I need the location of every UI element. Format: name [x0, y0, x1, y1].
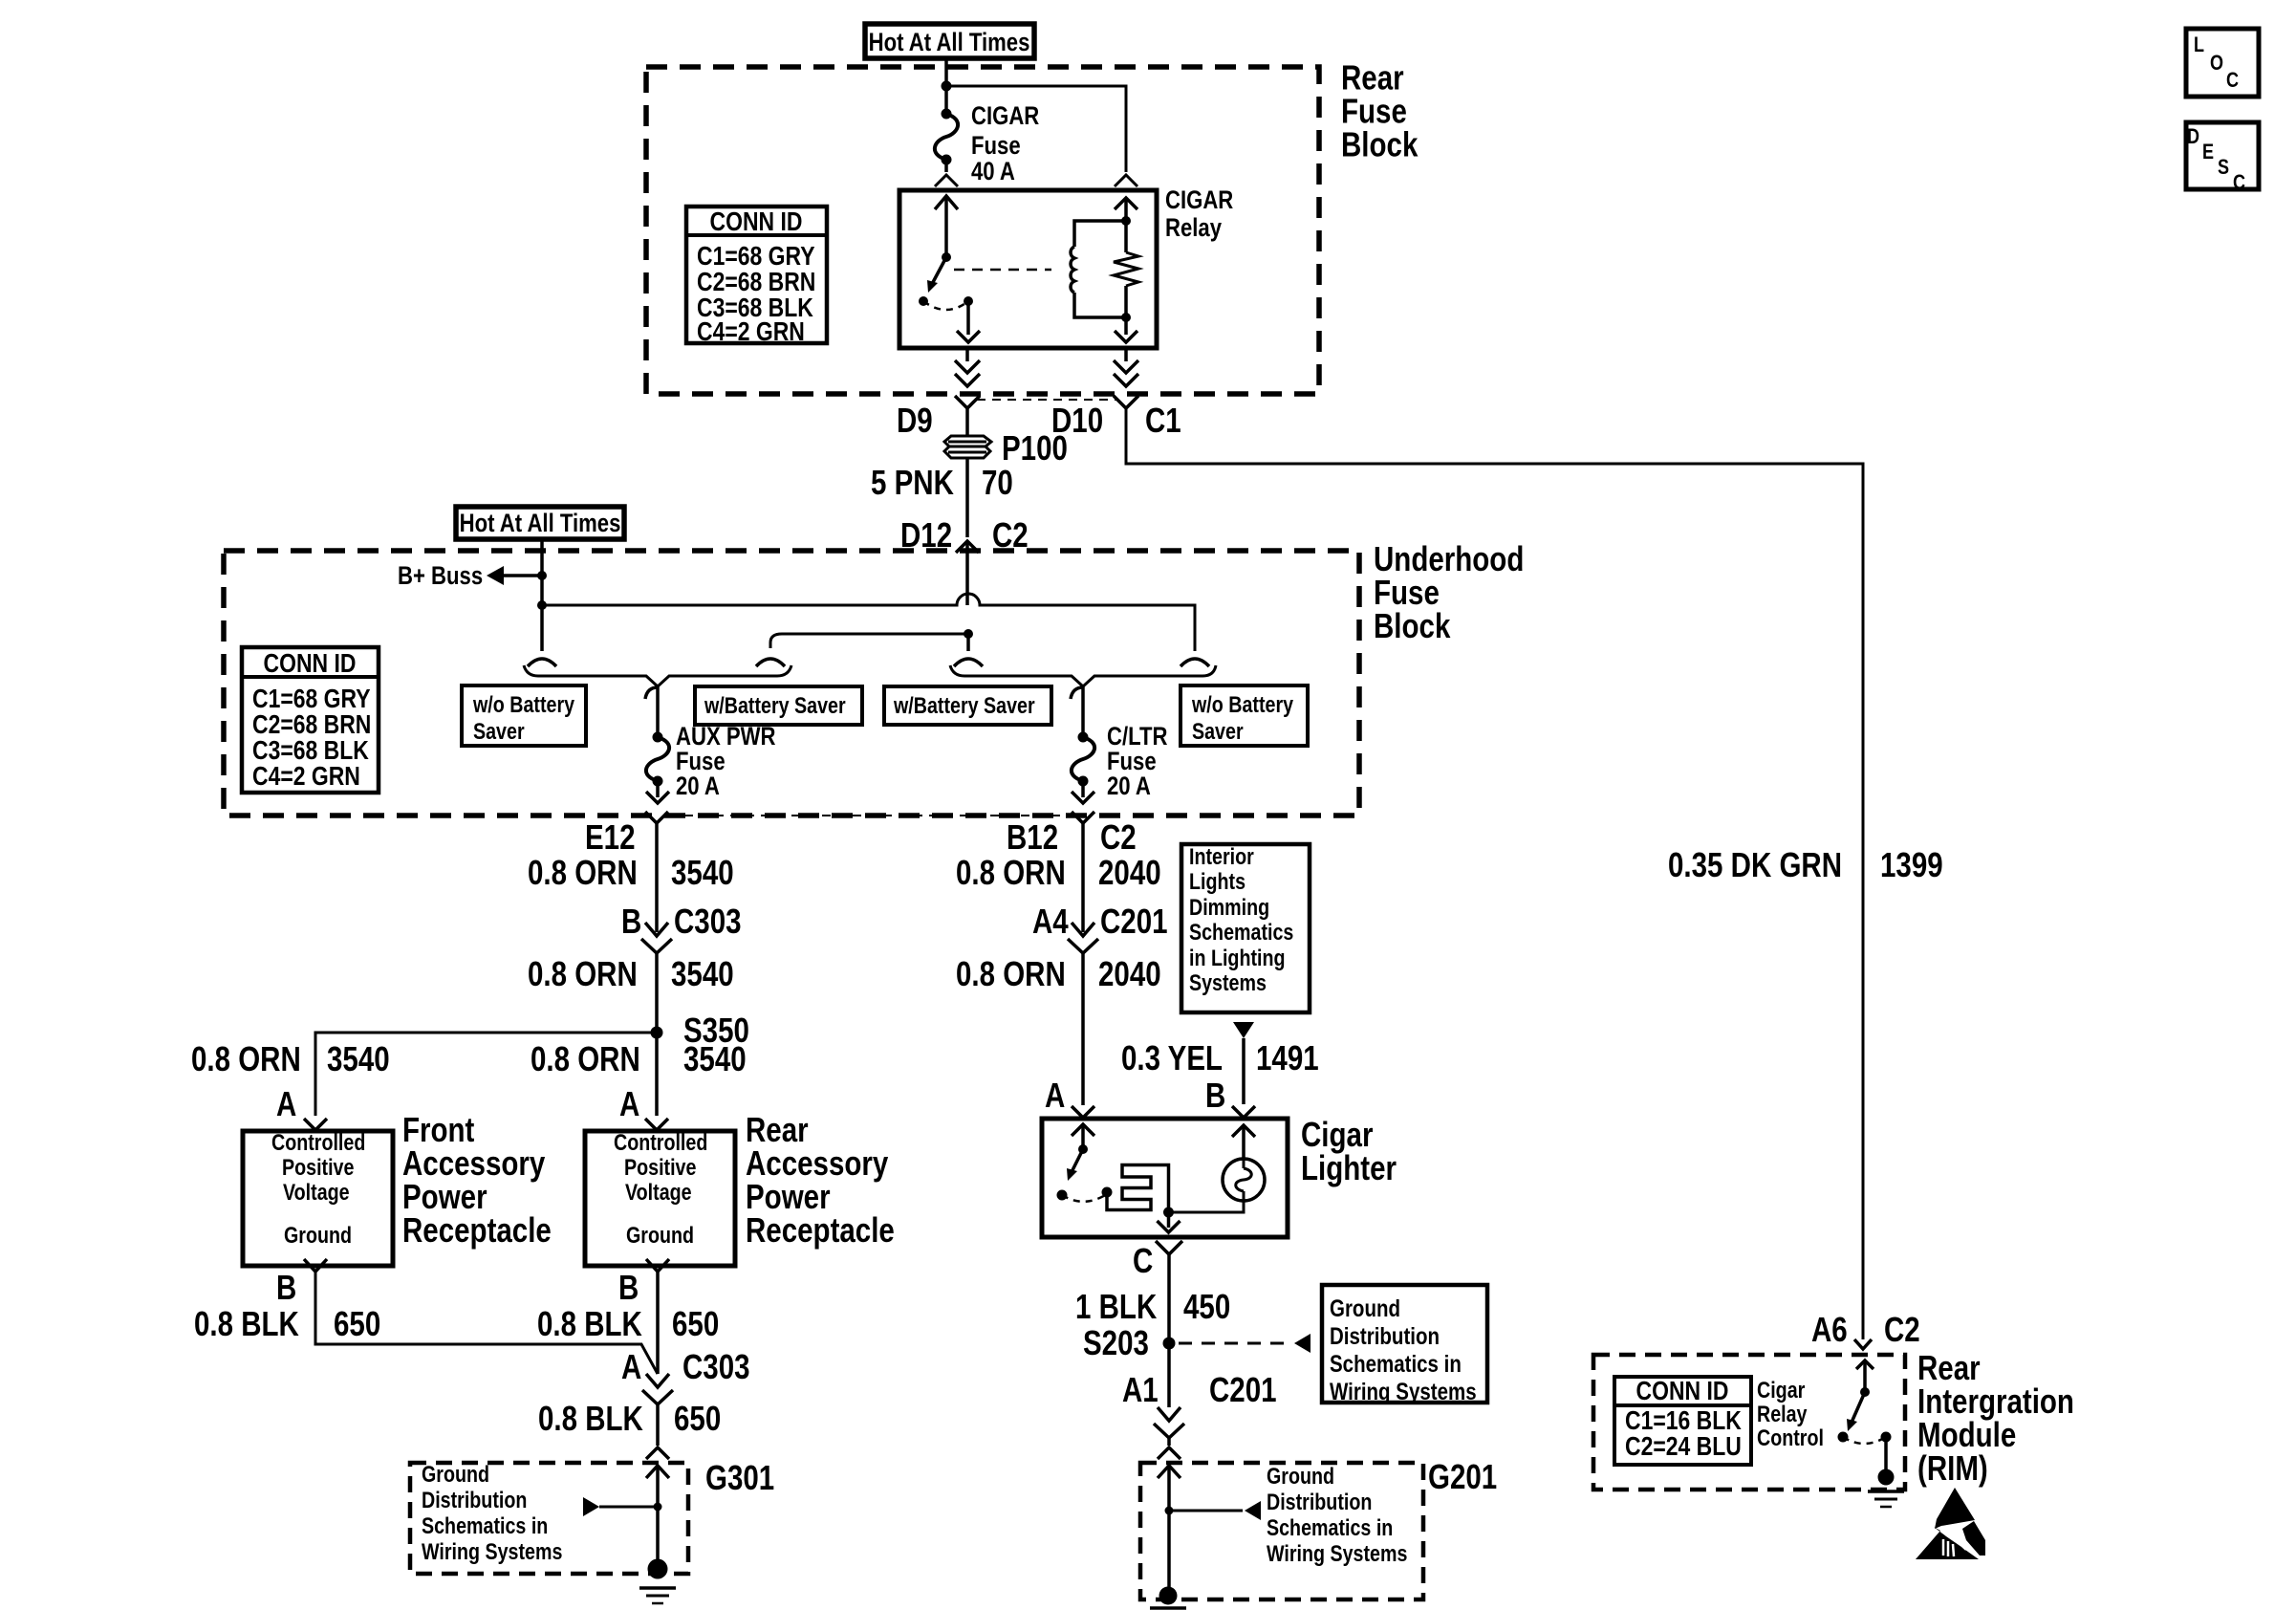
svg-text:1 BLK: 1 BLK — [1075, 1287, 1157, 1325]
RIM internal ground — [1884, 1437, 1888, 1472]
svg-text:0.3 YEL: 0.3 YEL — [1121, 1038, 1223, 1077]
svg-text:Distribution: Distribution — [1330, 1322, 1440, 1349]
relay coil — [1121, 216, 1131, 226]
node: B+ tap — [537, 571, 547, 580]
svg-text:Relay: Relay — [1757, 1401, 1808, 1426]
svg-text:C: C — [2226, 69, 2239, 92]
svg-text:Fuse: Fuse — [971, 132, 1021, 161]
boxed label: w/o Battery Saver (left) — [462, 685, 586, 746]
component: Cigar Lighter — [1042, 1119, 1288, 1237]
ESD sensitive symbol — [1935, 1488, 1975, 1529]
cigar lighter heating element — [1107, 1165, 1169, 1213]
relay contact A — [919, 296, 928, 306]
svg-text:650: 650 — [334, 1304, 380, 1342]
svg-text:450: 450 — [1183, 1287, 1230, 1325]
reference box: Interior Lights Dimming Schematics in Lighting Systems — [1181, 844, 1310, 1012]
connector A4 / C201 — [1072, 923, 1094, 936]
dashed reference line from S203 — [1179, 1342, 1292, 1345]
flag from dimming box — [1233, 1022, 1254, 1038]
svg-text:Dimming: Dimming — [1189, 894, 1269, 920]
svg-text:Ground: Ground — [1330, 1295, 1400, 1321]
svg-text:Saver: Saver — [473, 718, 525, 744]
svg-text:Ground: Ground — [284, 1222, 352, 1248]
relay resistor — [1124, 198, 1128, 252]
svg-text:S203: S203 — [1083, 1323, 1149, 1361]
AUX PWR fuse feed hook — [645, 687, 658, 737]
G301 ground symbol — [648, 1559, 668, 1579]
connector A / C303 (lower) — [646, 1374, 669, 1387]
svg-text:Ground: Ground — [1267, 1463, 1334, 1489]
svg-text:1491: 1491 — [1256, 1038, 1319, 1077]
svg-text:0.8 BLK: 0.8 BLK — [537, 1304, 642, 1342]
node: element output junction — [1163, 1207, 1174, 1218]
connector D9 (female Y) — [955, 396, 980, 408]
svg-text:CONN ID: CONN ID — [1636, 1377, 1729, 1406]
svg-text:C2: C2 — [1100, 817, 1137, 856]
wire from Hot At All Times down to fuse — [944, 58, 948, 114]
connector E12 — [645, 812, 668, 823]
svg-text:D9: D9 — [897, 401, 933, 439]
svg-text:C201: C201 — [1100, 902, 1168, 940]
relay switch common pin arrow — [944, 198, 948, 257]
cigar lighter lamp — [1169, 1201, 1245, 1212]
wire S350 down to rear receptacle — [655, 1033, 659, 1116]
svg-text:Interior: Interior — [1189, 843, 1254, 869]
svg-text:A: A — [276, 1084, 296, 1122]
svg-text:Saver: Saver — [1192, 718, 1244, 744]
label: Hot At All Times (middle) — [456, 507, 624, 539]
svg-text:3540: 3540 — [671, 954, 734, 992]
connector into G301 — [646, 1447, 669, 1459]
wire C1 to RIM (long route) — [1126, 408, 1863, 1339]
ground wire from rear receptacle — [656, 1272, 660, 1374]
svg-text:Lighter: Lighter — [1301, 1148, 1397, 1186]
svg-text:C1: C1 — [1145, 401, 1181, 439]
cigar lighter switch — [1072, 1124, 1094, 1136]
svg-text:A: A — [621, 1347, 641, 1385]
svg-text:G301: G301 — [705, 1458, 774, 1496]
wire P100 down to D12 — [965, 458, 969, 537]
svg-text:CONN ID: CONN ID — [710, 207, 803, 237]
svg-text:Controlled: Controlled — [271, 1129, 365, 1155]
svg-text:P100: P100 — [1002, 428, 1068, 467]
svg-text:Lights: Lights — [1189, 868, 1245, 894]
svg-text:Controlled: Controlled — [614, 1129, 707, 1155]
svg-text:E12: E12 — [585, 817, 636, 856]
connector D12/C2 arrow up — [956, 541, 979, 553]
svg-text:S: S — [2218, 156, 2229, 179]
wire from Hot At All Times into fuse block — [540, 539, 544, 651]
svg-text:A: A — [619, 1084, 639, 1122]
options brace left — [524, 665, 791, 686]
svg-text:Receptacle: Receptacle — [746, 1210, 895, 1249]
svg-text:O: O — [2210, 52, 2223, 75]
svg-text:Systems: Systems — [1189, 969, 1267, 995]
svg-text:w/Battery Saver: w/Battery Saver — [893, 692, 1035, 718]
svg-text:C4=2 GRN: C4=2 GRN — [252, 762, 360, 792]
connector B12/C2 — [1072, 812, 1094, 823]
wire E12 down — [655, 823, 659, 932]
branch wire to front receptacle — [315, 1033, 657, 1116]
svg-text:C303: C303 — [674, 902, 742, 940]
Underhood Fuse Block dashed box — [224, 551, 1359, 816]
cigar lighter output arrow — [1167, 1212, 1171, 1228]
node: junction on main vertical — [964, 629, 973, 639]
svg-text:w/o Battery: w/o Battery — [472, 691, 575, 717]
svg-text:CIGAR: CIGAR — [1165, 186, 1233, 215]
svg-text:Receptacle: Receptacle — [402, 1210, 552, 1249]
svg-text:CIGAR: CIGAR — [971, 102, 1039, 131]
connector A1 / C201 — [1158, 1407, 1180, 1421]
svg-text:B: B — [618, 1268, 639, 1306]
component: Rear Accessory Power Receptacle — [585, 1131, 735, 1266]
svg-text:A1: A1 — [1122, 1370, 1159, 1408]
relay pin D10 double chevrons — [1124, 348, 1128, 361]
svg-text:Voltage: Voltage — [625, 1179, 692, 1205]
DESC button — [2186, 122, 2259, 189]
svg-text:Wiring Systems: Wiring Systems — [422, 1538, 562, 1564]
svg-text:C2: C2 — [1884, 1310, 1920, 1348]
second bus wire — [770, 634, 968, 648]
svg-text:D: D — [2187, 125, 2199, 148]
relay pin D9 double chevrons — [965, 348, 969, 361]
svg-text:G201: G201 — [1428, 1457, 1497, 1495]
svg-text:C: C — [1133, 1241, 1153, 1279]
svg-text:Ground: Ground — [422, 1461, 489, 1487]
svg-text:Ground: Ground — [626, 1222, 694, 1248]
Rear Fuse Block dashed box — [646, 67, 1319, 394]
connector clips — [528, 659, 556, 666]
fine dashed connector line D9-D10 — [977, 399, 1116, 401]
svg-text:0.8 ORN: 0.8 ORN — [531, 1039, 640, 1077]
svg-text:5 PNK: 5 PNK — [871, 463, 954, 501]
svg-text:Wiring Systems: Wiring Systems — [1330, 1378, 1477, 1404]
connector D10/C1 (female Y) — [1114, 396, 1138, 408]
wire B12 down — [1081, 823, 1085, 932]
pass-through grommet P100 — [944, 436, 991, 458]
splice S350 — [651, 1027, 663, 1039]
svg-text:B: B — [1205, 1076, 1225, 1114]
CONN ID box (rear fuse block) — [686, 207, 827, 343]
Rear Integration Module dashed box — [1593, 1355, 1905, 1490]
svg-text:B12: B12 — [1007, 817, 1058, 856]
svg-text:A: A — [1045, 1076, 1065, 1114]
label: Hot At All Times (top) — [865, 24, 1034, 58]
svg-text:20 A: 20 A — [676, 772, 720, 801]
svg-text:20 A: 20 A — [1107, 772, 1151, 801]
svg-text:Positive: Positive — [624, 1154, 696, 1180]
svg-text:3540: 3540 — [683, 1039, 747, 1077]
boxed label: w/Battery Saver (left) — [695, 686, 862, 725]
svg-text:C303: C303 — [682, 1347, 750, 1385]
boxed label: w/o Battery Saver (right) — [1180, 685, 1308, 746]
svg-text:A6: A6 — [1811, 1310, 1848, 1348]
svg-text:C4=2 GRN: C4=2 GRN — [697, 317, 805, 347]
RIM switch — [1856, 1360, 1874, 1369]
svg-text:0.8 BLK: 0.8 BLK — [538, 1399, 643, 1437]
svg-text:3540: 3540 — [327, 1039, 390, 1077]
fuse: AUX PWR 20 A — [653, 732, 663, 743]
svg-text:B: B — [276, 1268, 296, 1306]
connector into relay (right pin) — [1115, 175, 1137, 186]
CONN ID box (RIM) — [1614, 1377, 1751, 1465]
svg-text:E: E — [2202, 141, 2214, 163]
svg-text:2040: 2040 — [1098, 853, 1161, 891]
svg-text:650: 650 — [674, 1399, 721, 1437]
connector into relay (left pin) — [935, 175, 958, 186]
svg-text:Control: Control — [1757, 1425, 1824, 1450]
svg-text:Schematics in: Schematics in — [1330, 1350, 1462, 1377]
svg-text:Hot At All Times: Hot At All Times — [869, 29, 1030, 57]
ground G301 dashed box — [410, 1463, 688, 1574]
svg-text:0.8 ORN: 0.8 ORN — [528, 954, 638, 992]
ground G201 dashed box — [1140, 1463, 1423, 1599]
relay switch blade — [931, 257, 946, 286]
svg-text:w/o Battery: w/o Battery — [1191, 691, 1294, 717]
relay switch dashed throw arc — [923, 301, 968, 310]
node: bus junction — [537, 600, 547, 610]
reference box: Ground Distribution Schematics in Wiring Systems (S203) — [1322, 1285, 1487, 1403]
relay contact B — [964, 296, 973, 306]
svg-text:Schematics: Schematics — [1189, 919, 1293, 945]
connector B / C303 — [645, 923, 668, 936]
fuse: CIGAR Fuse 40 A — [942, 109, 952, 120]
LOC button — [2186, 29, 2259, 97]
relay coil linkage dashed — [954, 269, 1051, 272]
relay output wire and arrow — [966, 301, 970, 335]
wire: branch to relay coil side — [946, 86, 1126, 172]
G201 ground symbol — [1159, 1587, 1178, 1605]
svg-text:3540: 3540 — [671, 853, 734, 891]
svg-text:Positive: Positive — [282, 1154, 354, 1180]
relay switch pivot — [942, 252, 951, 262]
svg-text:650: 650 — [672, 1304, 719, 1342]
B+ Buss arrow — [504, 574, 542, 577]
boxed label: w/Battery Saver (right) — [884, 686, 1051, 725]
svg-text:C201: C201 — [1209, 1370, 1277, 1408]
connector into G201 — [1158, 1447, 1180, 1459]
fine dashed line E12-B12 — [669, 815, 1071, 816]
svg-text:Voltage: Voltage — [283, 1179, 350, 1205]
svg-text:40 A: 40 A — [971, 158, 1015, 186]
svg-text:Distribution: Distribution — [1267, 1489, 1372, 1514]
CONN ID box (underhood) — [242, 647, 379, 793]
splice S203 — [1163, 1338, 1176, 1350]
svg-text:Hot At All Times: Hot At All Times — [460, 510, 621, 538]
svg-text:Relay: Relay — [1165, 214, 1222, 243]
G201 entry arrow — [1158, 1466, 1180, 1478]
svg-text:B: B — [621, 902, 641, 940]
svg-text:Distribution: Distribution — [422, 1487, 527, 1512]
G301 entry arrow — [646, 1466, 669, 1478]
fuse: C/LTR 20 A — [1078, 732, 1089, 743]
svg-text:Cigar: Cigar — [1757, 1377, 1806, 1403]
svg-text:C2=24 BLU: C2=24 BLU — [1625, 1432, 1742, 1462]
svg-text:C: C — [2233, 171, 2245, 194]
C/LTR fuse feed hook — [1071, 687, 1083, 737]
svg-text:B+ Buss: B+ Buss — [398, 562, 483, 591]
svg-text:0.35 DK GRN: 0.35 DK GRN — [1668, 845, 1842, 883]
svg-text:70: 70 — [982, 463, 1013, 501]
svg-text:Block: Block — [1341, 125, 1419, 163]
svg-text:0.8 ORN: 0.8 ORN — [191, 1039, 301, 1077]
component: Front Accessory Power Receptacle — [243, 1131, 393, 1266]
svg-text:0.8 BLK: 0.8 BLK — [194, 1304, 299, 1342]
G201 reference flag — [1165, 1507, 1174, 1515]
options brace right — [950, 665, 1216, 686]
svg-text:Schematics in: Schematics in — [422, 1512, 548, 1538]
svg-text:0.8 ORN: 0.8 ORN — [956, 853, 1066, 891]
svg-text:Wiring Systems: Wiring Systems — [1267, 1540, 1407, 1566]
svg-text:L: L — [2194, 33, 2204, 56]
svg-text:0.8 ORN: 0.8 ORN — [528, 853, 638, 891]
relay box: CIGAR Relay — [899, 190, 1157, 348]
svg-text:(RIM): (RIM) — [1917, 1448, 1988, 1487]
wire D9 to P100 — [965, 408, 969, 436]
svg-text:w/Battery Saver: w/Battery Saver — [704, 692, 846, 718]
svg-text:A4: A4 — [1032, 902, 1069, 940]
svg-text:in Lighting: in Lighting — [1189, 945, 1286, 970]
svg-text:2040: 2040 — [1098, 954, 1161, 992]
G301 reference flag — [654, 1503, 662, 1512]
svg-text:CONN ID: CONN ID — [264, 649, 357, 679]
svg-text:0.8 ORN: 0.8 ORN — [956, 954, 1066, 992]
node: junction at top of fuse branch — [942, 81, 952, 92]
wire 0.3 YEL 1491 — [1242, 1038, 1245, 1104]
svg-text:1399: 1399 — [1880, 845, 1943, 883]
svg-text:Block: Block — [1374, 606, 1451, 644]
ground wire from front receptacle — [315, 1272, 658, 1374]
bus wire with crossover hump — [542, 594, 1195, 651]
svg-text:Schematics in: Schematics in — [1267, 1514, 1393, 1540]
